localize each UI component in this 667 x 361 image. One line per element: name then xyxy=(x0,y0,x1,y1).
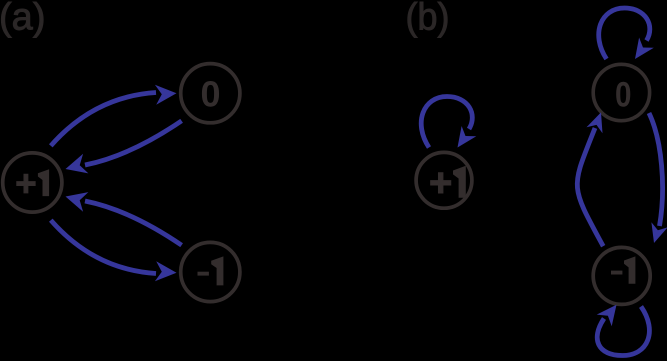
arrow -1 to 0 (panel b, left arc) xyxy=(577,112,603,246)
svg-text:(a): (a) xyxy=(0,0,46,39)
node 0 (panel a) xyxy=(181,64,240,123)
node -1 (panel b) xyxy=(593,247,650,304)
arrow -1 to +1 (panel a) xyxy=(66,192,182,245)
svg-text:(b): (b) xyxy=(406,0,450,39)
node +1 (panel a) xyxy=(3,153,62,212)
arrow +1 to -1 (panel a) xyxy=(51,220,177,281)
self-loop on 0 (panel b) xyxy=(599,8,654,59)
svg-text:+: + xyxy=(429,161,452,205)
self-loop on -1 (panel b) xyxy=(597,305,650,356)
node +1 (panel b) xyxy=(416,152,472,208)
arrow 0 to -1 (panel b, right arc) xyxy=(649,113,667,243)
svg-text:+: + xyxy=(15,163,37,204)
svg-text:0: 0 xyxy=(615,75,632,115)
self-loop on +1 (panel b) xyxy=(421,97,476,148)
node -1 (panel a) xyxy=(181,242,240,301)
arrow 0 to +1 (panel a) xyxy=(66,121,182,174)
node 0 (panel b) xyxy=(593,64,649,120)
svg-text:0: 0 xyxy=(200,74,220,115)
arrow +1 to 0 (panel a) xyxy=(51,85,177,146)
